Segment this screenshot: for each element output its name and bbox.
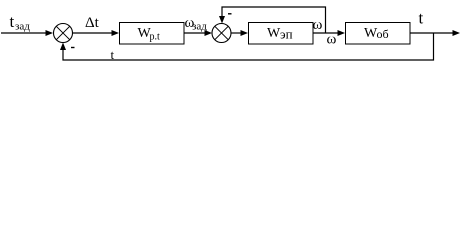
label t output [419,9,424,28]
svg-text:зад: зад [15,21,30,33]
summing junction S1 [54,24,73,43]
wire S1 to W_p.t [73,32,114,34]
minus sign at S2 top input [228,13,232,15]
svg-text:t: t [111,47,115,62]
summing junction S2 [212,24,231,43]
svg-text:эп: эп [280,27,293,42]
label omega_zad [185,15,208,33]
arrowhead into W_ob [338,30,346,36]
arrowhead into W_p.t [112,30,120,36]
label t_zad [10,12,31,33]
output arrowhead [453,30,461,36]
arrowhead into summer S1 [46,30,54,36]
arrowhead omega feedback into S2 [219,16,225,24]
label omega after takeoff [327,32,337,48]
arrowhead into summer S2 [205,30,213,36]
svg-text:ω: ω [313,17,323,33]
svg-text:Δt: Δt [85,15,100,31]
svg-text:t: t [419,9,424,28]
label t on feedback wire [111,47,115,62]
wire W_p.t to S2 [184,32,206,34]
block W_p.t [120,23,185,45]
wire input t_zad [1,32,47,34]
wire W_ob to output [410,32,453,34]
minus sign at S1 bottom input [71,47,75,49]
svg-text:t: t [10,12,15,31]
label omega before takeoff [313,17,323,33]
block W_ob [346,23,411,45]
wire W_ep to W_ob [313,32,339,34]
wire omega feedback (takeoff to S2 top) [222,7,326,33]
svg-text:W: W [267,26,281,41]
arrowhead into W_ep [241,30,249,36]
label delta-t [85,15,100,31]
svg-text:ω: ω [327,32,337,48]
svg-text:р.t: р.t [150,32,161,43]
svg-text:об: об [377,27,389,41]
wire t feedback (takeoff to S1 bottom) [63,33,434,60]
wire S2 to W_ep [231,32,242,34]
arrowhead t feedback into S1 [60,43,66,51]
block W_ep [249,23,314,45]
